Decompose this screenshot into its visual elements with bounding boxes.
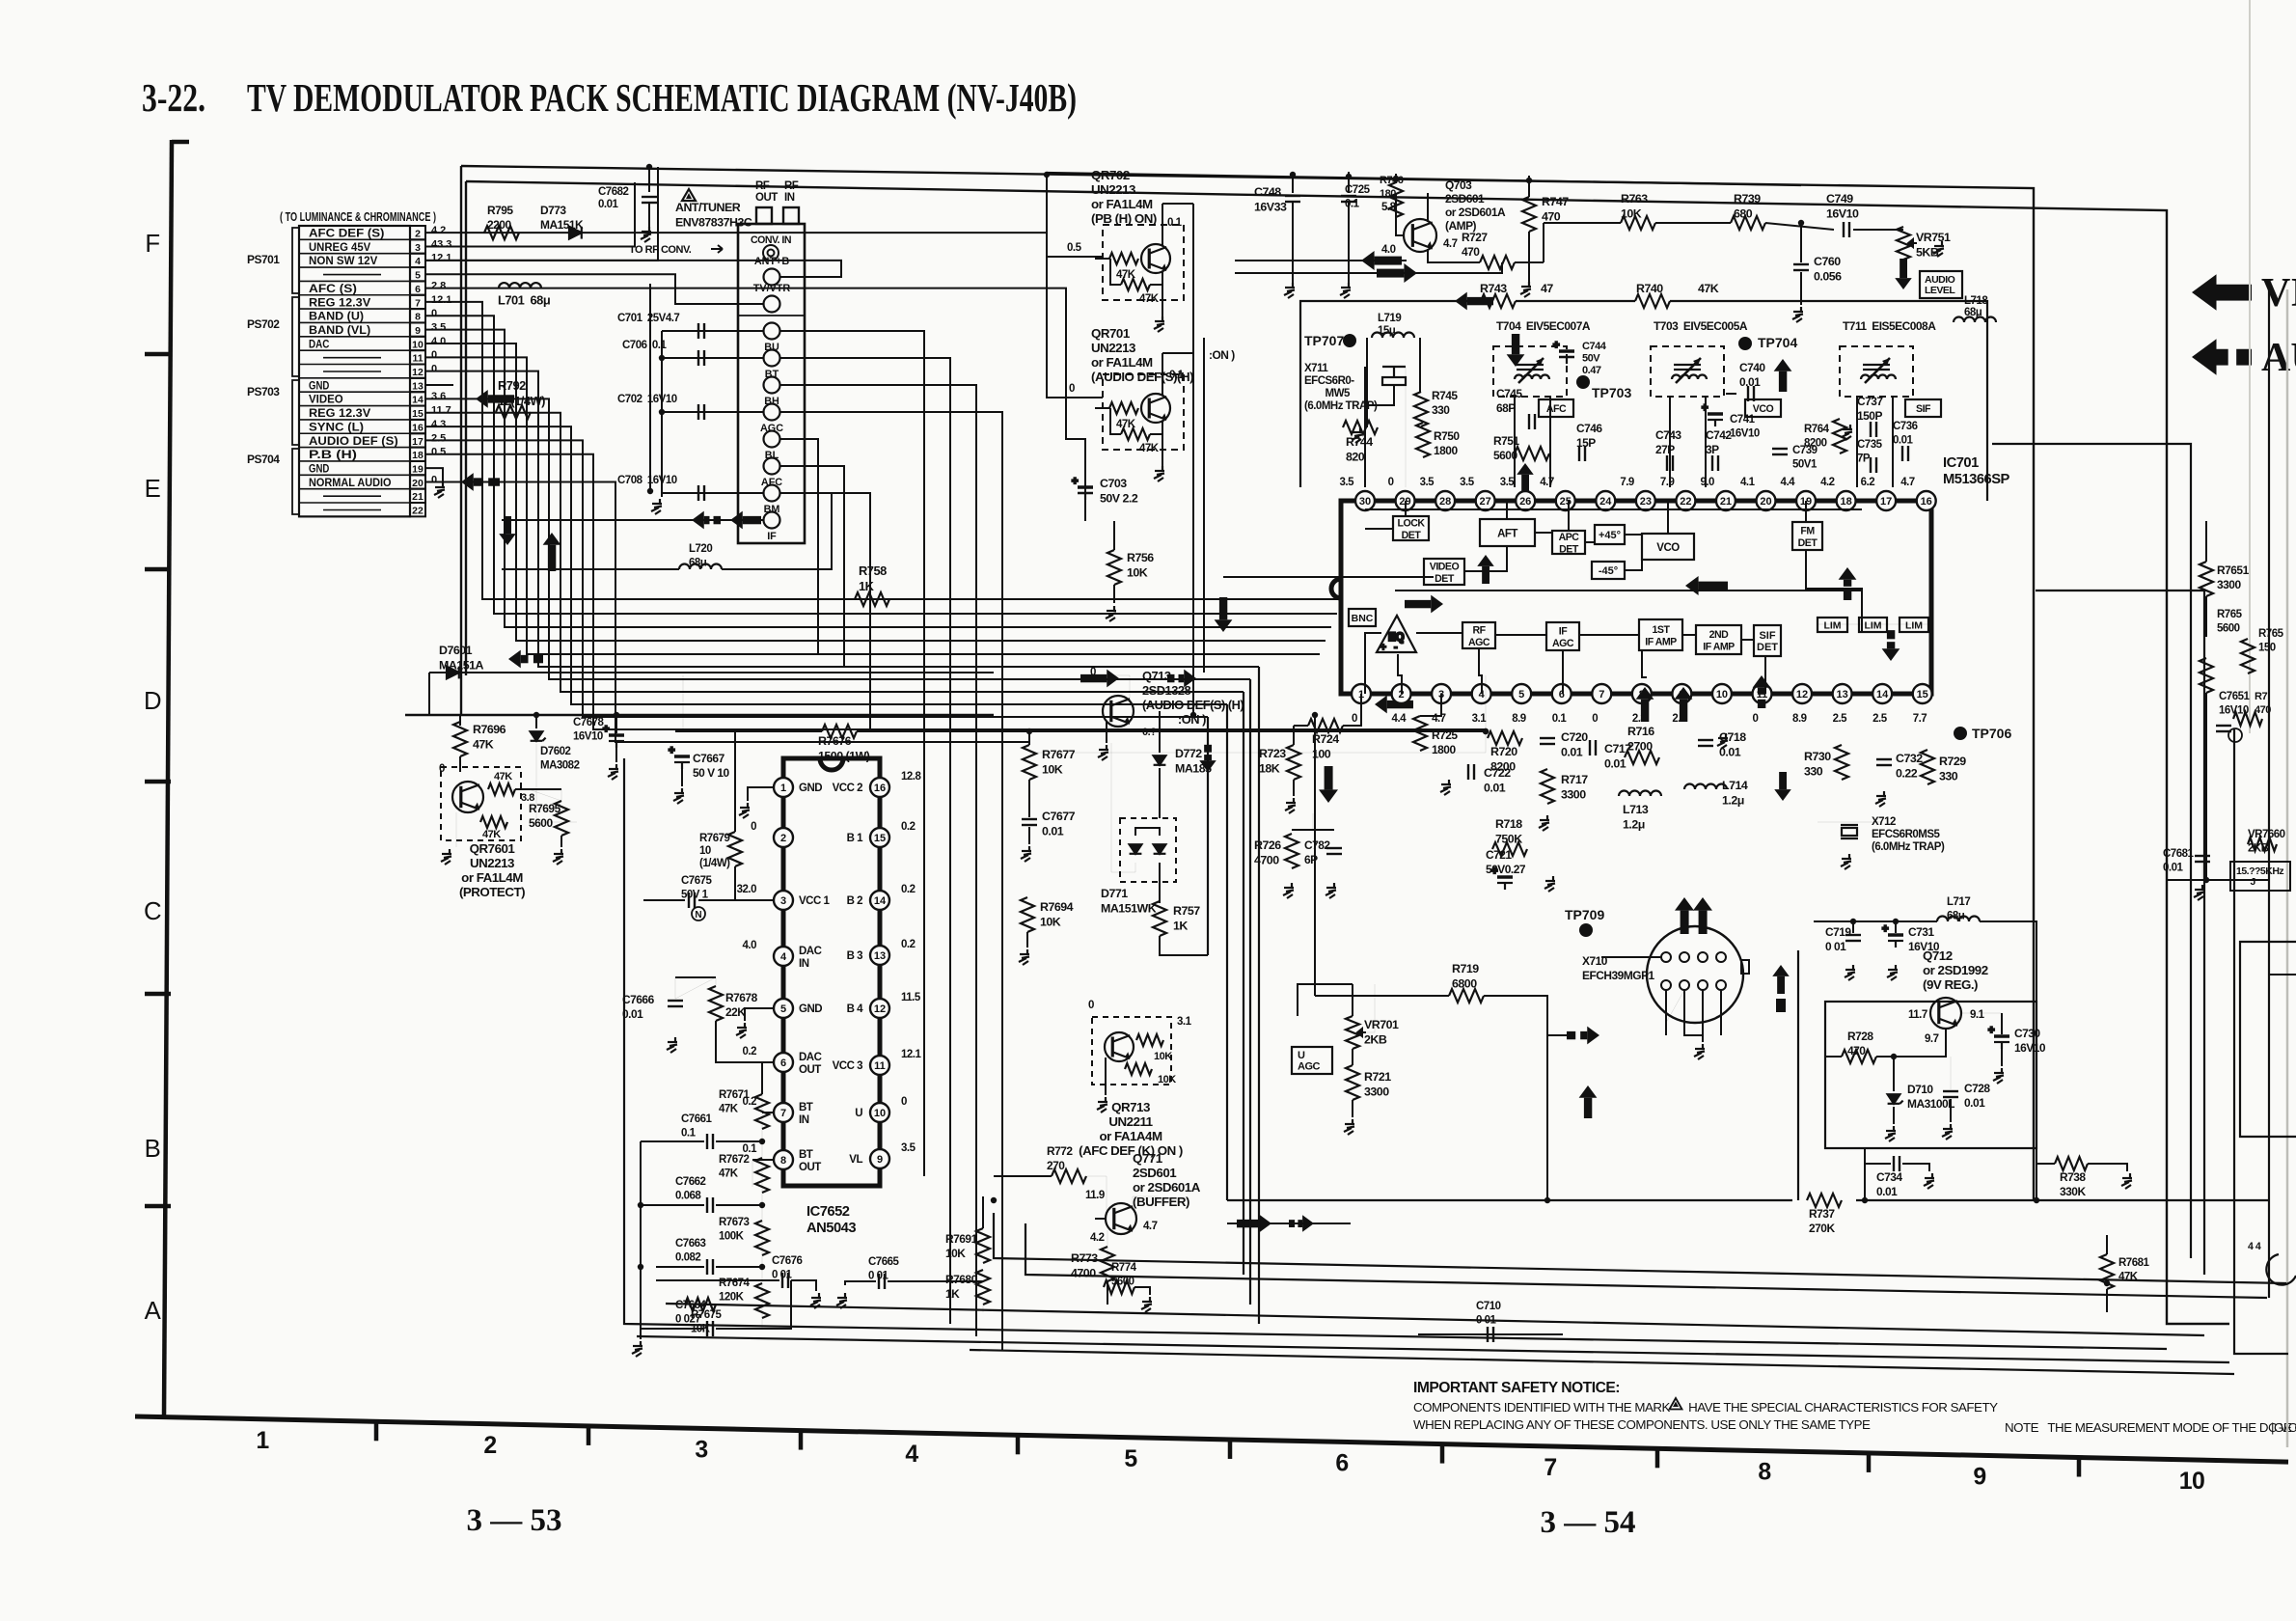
label RF OUT bbox=[755, 180, 778, 204]
label R7676 bbox=[818, 734, 870, 763]
label C744 bbox=[1582, 341, 1607, 376]
capacitor C7682 bbox=[642, 197, 657, 203]
connector group PS701 bracket bbox=[292, 228, 299, 293]
ground C7666 bbox=[667, 1037, 677, 1053]
label C718 bbox=[1719, 730, 1746, 759]
svg-text:or 2SD601A: or 2SD601A bbox=[1445, 206, 1506, 219]
svg-text:0.01: 0.01 bbox=[2163, 863, 2183, 874]
svg-text:L720: L720 bbox=[689, 543, 712, 555]
wire R738 net left bbox=[2036, 1148, 2037, 1200]
wire Q703 emitter bbox=[1428, 249, 1480, 262]
svg-text:R750: R750 bbox=[1434, 429, 1460, 443]
capacitor C721 bbox=[1491, 865, 1513, 890]
svg-text:28: 28 bbox=[1439, 496, 1451, 508]
wire mid vertical d bbox=[1249, 679, 1251, 1305]
label C7651 bbox=[2219, 691, 2250, 717]
test point TP706 bbox=[1954, 726, 2011, 741]
capacitor C760 bbox=[1793, 264, 1809, 270]
svg-text:SYNC (L): SYNC (L) bbox=[309, 422, 364, 433]
label IC7652 bbox=[806, 1204, 856, 1236]
label R765y bbox=[2258, 628, 2284, 654]
wire R728 right bbox=[1876, 1029, 1946, 1057]
IC701 pin 22 bbox=[1676, 491, 1695, 510]
ground R723 bbox=[1285, 798, 1296, 813]
svg-text:PS703: PS703 bbox=[247, 385, 280, 398]
label R739 bbox=[1734, 192, 1761, 221]
inductor L717 bbox=[1937, 917, 1980, 922]
wire X710 mid vertical bbox=[1797, 950, 1799, 1200]
svg-text:C725: C725 bbox=[1345, 184, 1371, 196]
svg-text:C7666: C7666 bbox=[622, 993, 655, 1006]
label R764 bbox=[1804, 424, 1830, 450]
label D7602 bbox=[540, 746, 580, 772]
svg-text:0.22: 0.22 bbox=[1896, 767, 1918, 781]
transistor Q712 bbox=[1930, 998, 1961, 1029]
svg-text:0.01: 0.01 bbox=[1876, 1185, 1898, 1198]
svg-text:10K: 10K bbox=[1158, 1074, 1176, 1085]
svg-text:6.2: 6.2 bbox=[1861, 477, 1875, 488]
svg-text:10: 10 bbox=[2179, 1469, 2205, 1495]
resistor R756 bbox=[1107, 550, 1121, 585]
svg-text:5: 5 bbox=[415, 270, 421, 282]
wire R746 top bbox=[1395, 174, 1397, 182]
svg-text:L719: L719 bbox=[1378, 313, 1401, 324]
svg-text:22: 22 bbox=[1680, 496, 1691, 508]
connector pin 15 numbox bbox=[410, 406, 425, 420]
wire C7664 right bbox=[716, 1280, 791, 1329]
connector pin 17 numbox bbox=[410, 433, 425, 447]
svg-text:R717: R717 bbox=[1561, 773, 1588, 786]
svg-text:ANT/TUNER: ANT/TUNER bbox=[675, 201, 741, 214]
svg-text:12.8: 12.8 bbox=[901, 771, 921, 783]
resistor R720 bbox=[1488, 731, 1522, 745]
svg-text:24: 24 bbox=[1599, 496, 1612, 508]
wire top inner loop bbox=[466, 181, 2229, 1324]
wire bottom bus 2 bbox=[1025, 1223, 2267, 1298]
svg-text:( TO LUMINANCE & CHROMINANCE ): ( TO LUMINANCE & CHROMINANCE ) bbox=[280, 209, 436, 224]
resistor R765y bbox=[2241, 639, 2255, 673]
label T711 bbox=[1843, 319, 1936, 333]
connector pin 14 numbox bbox=[410, 392, 425, 405]
resistor R738 bbox=[2055, 1157, 2088, 1170]
svg-text:0: 0 bbox=[1753, 713, 1759, 725]
connector row line 7 bbox=[299, 308, 410, 310]
svg-text:C730: C730 bbox=[2014, 1027, 2040, 1040]
wire Q712 coll bbox=[1961, 1012, 2002, 1014]
wire L720 right bbox=[722, 493, 832, 569]
svg-text:C749: C749 bbox=[1826, 192, 1853, 206]
wire R772 left bbox=[994, 1175, 1052, 1177]
svg-text:4.1: 4.1 bbox=[1740, 477, 1756, 488]
svg-text:IF: IF bbox=[767, 531, 777, 542]
ground R717 bbox=[1539, 815, 1549, 831]
svg-text:6: 6 bbox=[1335, 1450, 1348, 1476]
wire pin8 lead bbox=[752, 1159, 774, 1161]
svg-text:AFT: AFT bbox=[1497, 529, 1517, 540]
wire Q771 base lead bbox=[1095, 1218, 1107, 1220]
svg-text:3300: 3300 bbox=[1364, 1085, 1389, 1099]
resistor QR713 10K a bbox=[1136, 1034, 1163, 1046]
svg-text:R737: R737 bbox=[1809, 1207, 1835, 1221]
ground row19 bbox=[434, 482, 445, 498]
label R7695 bbox=[529, 802, 561, 830]
label R7651 bbox=[2217, 563, 2250, 591]
QR713 dashed box bbox=[1092, 1017, 1171, 1085]
wire R774 gnd bbox=[1134, 1287, 1150, 1295]
resistor R758 bbox=[855, 592, 889, 606]
capacitor C739 mark bbox=[1772, 449, 1788, 454]
svg-text:C720: C720 bbox=[1561, 730, 1588, 744]
label R7680 bbox=[945, 1273, 978, 1301]
svg-text:DAC: DAC bbox=[799, 1052, 822, 1063]
label Q703 bbox=[1445, 179, 1506, 233]
svg-text:R7671: R7671 bbox=[719, 1089, 750, 1101]
wire IC7652 pin5 gnd bbox=[745, 1008, 774, 1021]
svg-text:3.1: 3.1 bbox=[1472, 713, 1488, 725]
svg-text:D710: D710 bbox=[1907, 1083, 1933, 1096]
svg-text:R765: R765 bbox=[2258, 628, 2284, 640]
svg-text:C737: C737 bbox=[1857, 395, 1883, 408]
connector group PS703 bracket bbox=[292, 380, 299, 445]
svg-text:T703 EIV5EC005A: T703 EIV5EC005A bbox=[1654, 319, 1748, 333]
IC701 pin 19 bbox=[1796, 491, 1816, 510]
svg-text:0 01: 0 01 bbox=[1476, 1315, 1496, 1327]
svg-text:2SD1328: 2SD1328 bbox=[1142, 683, 1191, 698]
svg-text:C7676: C7676 bbox=[772, 1255, 802, 1267]
capacitor C725 bbox=[1341, 196, 1356, 202]
label C730 bbox=[2014, 1027, 2046, 1055]
svg-text:C7665: C7665 bbox=[868, 1256, 899, 1268]
IC701 internal wire lockdet bbox=[1365, 528, 1393, 530]
flow arrow sifdet bbox=[1774, 772, 1791, 801]
svg-text:R7691: R7691 bbox=[945, 1232, 978, 1246]
VR751 potentiometer bbox=[1897, 227, 1910, 260]
capacitor C7666 bbox=[668, 1001, 683, 1006]
resistor R718 bbox=[1492, 842, 1527, 856]
wire QR701 fb bbox=[1110, 408, 1121, 434]
label R756 bbox=[1127, 551, 1154, 580]
X710 pad top 2 bbox=[1698, 952, 1708, 962]
svg-text:R738: R738 bbox=[2060, 1170, 2086, 1184]
svg-text:+: + bbox=[1553, 340, 1559, 351]
label L717 bbox=[1947, 896, 1970, 922]
capacitor C732 bbox=[1876, 759, 1892, 765]
wire D771 left bbox=[1111, 743, 1135, 872]
label C7664 bbox=[675, 1300, 706, 1326]
wire C708 to tuner bbox=[662, 492, 763, 494]
ground R726 bbox=[1283, 883, 1294, 898]
svg-text:MA151WK: MA151WK bbox=[1101, 902, 1157, 916]
svg-text:20: 20 bbox=[412, 478, 424, 489]
X710 pad bottom 2 bbox=[1698, 980, 1708, 990]
wire tuner exit 2 bbox=[780, 385, 976, 1336]
flow arrow X710 b bbox=[1693, 897, 1712, 934]
svg-text:12.1: 12.1 bbox=[431, 253, 451, 264]
svg-text:B 1: B 1 bbox=[847, 833, 864, 844]
label C703 bbox=[1100, 477, 1138, 506]
junction R7676 net bbox=[1483, 728, 1489, 734]
svg-text:10: 10 bbox=[412, 339, 424, 350]
svg-text:L701 68μ: L701 68μ bbox=[498, 293, 551, 308]
svg-text:1K: 1K bbox=[1173, 920, 1188, 933]
wire Q703 vertical a bbox=[1192, 204, 1194, 715]
IC7652 pin 3 bbox=[774, 891, 793, 910]
svg-text:VR701: VR701 bbox=[1364, 1018, 1399, 1031]
label R7678 bbox=[725, 991, 758, 1019]
axis tick 1937 bbox=[1867, 1451, 1872, 1472]
svg-text:47K: 47K bbox=[494, 771, 512, 783]
wire connector pin 7 bundle bbox=[425, 302, 1343, 599]
junction dot 7 bbox=[1190, 712, 1196, 718]
label R726 bbox=[1254, 838, 1281, 867]
capacitor C728 bbox=[1943, 1091, 1958, 1097]
label D773 bbox=[540, 204, 584, 232]
IC7652 outline bbox=[783, 758, 880, 1186]
svg-text:AGC: AGC bbox=[1298, 1061, 1321, 1073]
svg-text:R7: R7 bbox=[2255, 691, 2267, 702]
junction dot 13 bbox=[759, 1139, 765, 1144]
svg-text:WHEN REPLACING ANY OF THESE CO: WHEN REPLACING ANY OF THESE COMPONENTS. … bbox=[1413, 1417, 1871, 1432]
resistor QR7601 47K b bbox=[480, 816, 507, 828]
capacitor C735 bbox=[1871, 457, 1876, 473]
resistor R772 bbox=[1052, 1169, 1086, 1183]
svg-text:C702 16V10: C702 16V10 bbox=[617, 394, 677, 405]
label D772 bbox=[1175, 747, 1212, 776]
svg-text:10K: 10K bbox=[945, 1247, 966, 1260]
wire C760 top bbox=[1800, 223, 1802, 262]
svg-text:RF: RF bbox=[755, 180, 770, 192]
svg-text:0.01: 0.01 bbox=[1561, 746, 1583, 759]
IC701 pin 4 bbox=[1472, 684, 1491, 703]
svg-text:2SD601: 2SD601 bbox=[1445, 192, 1485, 206]
wire VR701 top bbox=[1352, 984, 1353, 1016]
label R728 bbox=[1847, 1030, 1873, 1058]
label D7601 bbox=[439, 644, 483, 673]
wire bottom bus 6 bbox=[970, 1350, 2234, 1374]
capacitor C7681 bbox=[2195, 856, 2210, 862]
resistor R7680 bbox=[976, 1270, 990, 1305]
wire Q703 vertical b bbox=[1203, 338, 1205, 673]
wire R7691 up bbox=[982, 1196, 984, 1228]
svg-text:4.7: 4.7 bbox=[1143, 1221, 1158, 1232]
IC701 block VCO main bbox=[1642, 534, 1694, 560]
svg-text:C701 25V4.7: C701 25V4.7 bbox=[617, 313, 679, 324]
svg-text:1K: 1K bbox=[859, 579, 875, 593]
svg-text:J: J bbox=[2236, 876, 2256, 888]
IC701 internal long a bbox=[1365, 508, 1862, 510]
ground cap bus bbox=[651, 499, 662, 514]
wire T704 down b bbox=[1549, 397, 1551, 487]
tuner pin circle BT bbox=[764, 350, 780, 367]
label C7661 bbox=[681, 1113, 712, 1140]
svg-text:R764: R764 bbox=[1804, 424, 1830, 435]
page edge shadow bbox=[2249, 0, 2251, 733]
wire top outer loop bbox=[461, 166, 2034, 1200]
wire top net h bbox=[405, 714, 994, 716]
label C732 bbox=[1896, 752, 1923, 781]
wire mid vertical b bbox=[1226, 704, 1228, 1200]
wire D772 down bbox=[1159, 768, 1161, 818]
safety notice triangle bbox=[1670, 1398, 1682, 1410]
svg-text:3.5: 3.5 bbox=[1340, 477, 1355, 488]
svg-text:3 — 54: 3 — 54 bbox=[1541, 1505, 1636, 1540]
svg-text:R7675: R7675 bbox=[691, 1309, 722, 1321]
resistor R7676 bbox=[822, 725, 857, 738]
wire R7651 dn bbox=[2205, 596, 2207, 637]
label R758 bbox=[859, 563, 887, 593]
svg-text:16: 16 bbox=[1921, 496, 1932, 508]
wire row2 drop to QR701 bbox=[1047, 257, 1103, 398]
svg-text:NOTE THE MEASUREMENT MODE OF: NOTE THE MEASUREMENT MODE OF THE DC VC bbox=[2005, 1420, 2296, 1435]
axis tick 1495 bbox=[1440, 1442, 1445, 1464]
T704 tunable coil bbox=[1515, 358, 1549, 383]
svg-text:9.7: 9.7 bbox=[1925, 1033, 1939, 1045]
connector row line 20 bbox=[299, 488, 410, 490]
svg-text:U: U bbox=[1298, 1050, 1305, 1061]
label D771 bbox=[1101, 887, 1157, 916]
svg-text:4: 4 bbox=[415, 256, 421, 267]
svg-text:+: + bbox=[669, 745, 674, 756]
QR701 dashed box bbox=[1103, 374, 1184, 450]
IC701 pin 30 bbox=[1355, 491, 1375, 510]
svg-text:C703: C703 bbox=[1100, 477, 1127, 490]
wire AFC DEF(S) row2 to QR702 bbox=[425, 233, 1103, 257]
IC701 internal wire 1 bbox=[1405, 501, 1407, 516]
svg-text:330: 330 bbox=[1939, 770, 1958, 783]
label VR7660 bbox=[2248, 829, 2285, 855]
wire IC7652 pin1 gnd bbox=[748, 787, 774, 801]
wire R7695 gnd stub bbox=[560, 836, 562, 847]
wire L720 line bbox=[502, 568, 679, 570]
svg-text:47K: 47K bbox=[482, 829, 501, 840]
wire connector pin 15 bundle bbox=[425, 413, 1244, 692]
junction dot 17 bbox=[638, 1264, 643, 1270]
flow arrow bottom mid bbox=[1237, 1215, 1271, 1233]
svg-text:R7680: R7680 bbox=[945, 1273, 978, 1286]
svg-text:E: E bbox=[145, 476, 161, 503]
wire C7676 right bbox=[791, 1280, 816, 1291]
resistor R795 bbox=[484, 226, 519, 239]
svg-text:R716: R716 bbox=[1627, 725, 1654, 738]
label C743 bbox=[1655, 428, 1681, 456]
IC701 internal wire limfm bbox=[1806, 550, 1862, 632]
svg-text:0.01: 0.01 bbox=[1042, 825, 1064, 838]
label L713 bbox=[1623, 803, 1649, 832]
resistor QR701 47K b bbox=[1121, 428, 1150, 440]
IC701 internal wire rfagc bbox=[1479, 648, 1482, 694]
svg-text:PS702: PS702 bbox=[247, 317, 280, 331]
svg-text:27: 27 bbox=[1480, 496, 1491, 508]
svg-text:NON SW 12V: NON SW 12V bbox=[309, 256, 378, 267]
IC701 internal long b bbox=[1395, 590, 1862, 591]
resistor QR702 47K a bbox=[1109, 253, 1138, 264]
svg-text:22: 22 bbox=[412, 506, 424, 517]
wire upper right long a bbox=[1485, 675, 1487, 731]
frame tick D/C bbox=[145, 780, 171, 784]
wire D7602 down bbox=[536, 744, 577, 822]
flow arrow mid v2 bbox=[1199, 745, 1216, 772]
wire C703 bbox=[1084, 453, 1086, 521]
svg-text:MA3100L: MA3100L bbox=[1907, 1097, 1954, 1111]
wire C7682 stub bbox=[648, 167, 650, 192]
wire VR701 mid bbox=[1352, 1049, 1353, 1065]
svg-text:0.1: 0.1 bbox=[1167, 217, 1183, 229]
svg-text:R758: R758 bbox=[859, 563, 887, 578]
svg-text:LOCK: LOCK bbox=[1398, 517, 1426, 529]
svg-text:47K: 47K bbox=[2118, 1272, 2139, 1283]
wire D771 down bbox=[1159, 863, 1161, 903]
svg-text:N: N bbox=[695, 910, 701, 920]
svg-text:150: 150 bbox=[2258, 643, 2276, 654]
IC701 internal wire sif bbox=[1764, 656, 1766, 694]
ground C734 bbox=[1924, 1173, 1934, 1189]
svg-text:4.4: 4.4 bbox=[1781, 477, 1796, 488]
resistor R726 bbox=[1285, 834, 1298, 868]
IC7652 pin 7 bbox=[774, 1103, 793, 1122]
wire R7676 right bbox=[857, 730, 1486, 732]
svg-text:R723: R723 bbox=[1259, 747, 1286, 760]
wire Q771 emitter bbox=[1107, 1230, 1108, 1261]
svg-text:L714: L714 bbox=[1722, 779, 1748, 792]
svg-text:T704 EIV5EC007A: T704 EIV5EC007A bbox=[1496, 319, 1591, 333]
IC701 block 1ST IF AMP bbox=[1639, 619, 1682, 650]
resistor R717 bbox=[1541, 769, 1554, 804]
IC701 block VCO ext bbox=[1745, 399, 1781, 417]
IC701 block 2ND IF AMP bbox=[1696, 625, 1741, 654]
X710 pad bottom 1 bbox=[1680, 980, 1689, 990]
svg-text:C743: C743 bbox=[1655, 428, 1681, 442]
svg-text:4: 4 bbox=[780, 951, 787, 963]
svg-text:LIM: LIM bbox=[1864, 619, 1881, 631]
svg-text:R746: R746 bbox=[1380, 175, 1404, 186]
bottom axis bbox=[135, 1416, 2288, 1462]
label C737 bbox=[1857, 395, 1883, 423]
svg-text:MA3082: MA3082 bbox=[540, 760, 580, 772]
label AUDIO LEVEL bbox=[1925, 274, 1955, 296]
inductor L720 bbox=[679, 564, 722, 570]
wire R719 right bbox=[1484, 996, 1547, 1200]
svg-text:0.1: 0.1 bbox=[681, 1128, 697, 1140]
wire C7666 top bbox=[675, 977, 716, 999]
flow arrow Q703 left bbox=[1361, 251, 1402, 270]
svg-text:10: 10 bbox=[699, 845, 711, 857]
svg-text:R756: R756 bbox=[1127, 551, 1154, 564]
svg-text:C7651: C7651 bbox=[2219, 691, 2250, 702]
svg-text:T711 EIS5EC008A: T711 EIS5EC008A bbox=[1843, 319, 1936, 333]
flow arrow X710 sq bbox=[1776, 999, 1786, 1012]
svg-text:5600: 5600 bbox=[2217, 623, 2240, 635]
tuner pin circle AGC bbox=[764, 404, 780, 421]
svg-text:C744: C744 bbox=[1582, 341, 1607, 352]
svg-text:R739: R739 bbox=[1734, 192, 1761, 206]
wire right vertical 2352 bbox=[2268, 289, 2270, 1298]
svg-text:D771: D771 bbox=[1101, 887, 1128, 900]
transistor partial right edge bbox=[2266, 1254, 2296, 1285]
label C7663 bbox=[675, 1238, 705, 1264]
svg-text:FM: FM bbox=[1800, 525, 1815, 536]
wire T711 down b bbox=[1892, 397, 1894, 487]
svg-text:R773: R773 bbox=[1071, 1251, 1098, 1265]
svg-text:A: A bbox=[145, 1298, 162, 1325]
capacitor C7665 bbox=[879, 1274, 885, 1289]
svg-text:C748: C748 bbox=[1254, 185, 1281, 199]
wire C730 up bbox=[2001, 1013, 2003, 1034]
svg-text:0 01: 0 01 bbox=[772, 1270, 792, 1281]
svg-text:43.3: 43.3 bbox=[431, 238, 451, 250]
svg-text:680: 680 bbox=[1734, 207, 1753, 221]
label L719 bbox=[1378, 313, 1401, 337]
resistor R740 bbox=[1635, 294, 1670, 308]
